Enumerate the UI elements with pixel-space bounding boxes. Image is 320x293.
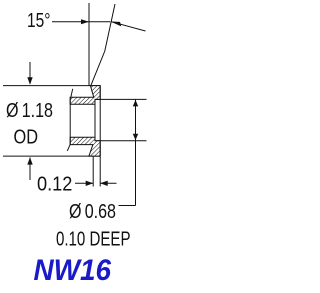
arrow: angle leader arrowhead at slanted line [111,22,122,27]
wire: 0.12 right dimension line [100,182,116,184]
wire: 0.68 dimension/leader vertical [135,99,137,205]
wire: OD bottom dimension line [29,158,31,181]
wire: recess top extension line [95,98,147,100]
wire: 0.12 right extension line [99,157,101,187]
weld tick bottom [67,145,70,151]
arrow: 0.12 pointing left [100,181,108,186]
wire: OD top dimension line [29,62,31,84]
arrow: OD bottom pointing up [27,157,32,164]
flange section top half [70,86,100,105]
wire: top OD extension line [3,85,100,87]
svg-text:Ø 1.18: Ø 1.18 [6,100,53,122]
arrow: 0.12 pointing right [86,181,94,186]
svg-text:15°: 15° [27,10,51,32]
recess floor line [94,99,96,140]
wire: 0.68 leader horizontal [119,205,136,207]
tube end face line [69,97,71,144]
flange section bottom half [70,137,100,156]
arrow: 0.68 pointing up [133,100,138,107]
wire: recess bottom extension line [95,140,147,142]
svg-text:OD: OD [14,127,39,149]
wire: 0.12 left extension line [92,157,94,187]
arrow: angle dim right-pointing at vertical line [81,19,89,24]
svg-text:0.10 DEEP: 0.10 DEEP [56,228,131,250]
arrowheads [27,19,138,186]
wire: vertical angle reference line [88,3,90,86]
wire: 15-degree slanted construction line [91,4,115,85]
flange face line [99,86,101,157]
arrow: 0.68 pointing down [133,134,138,141]
arrow: OD top pointing down [27,77,32,84]
wire: bottom OD extension line [3,155,100,157]
wire: angle leader to slanted line [111,22,146,32]
svg-text:Ø 0.68: Ø 0.68 [69,201,116,223]
wire: 0.12 left dimension line [75,182,93,184]
wire: angle dimension line [52,21,110,23]
weld tick top [71,89,73,98]
svg-text:0.12: 0.12 [37,173,72,195]
svg-text:NW16: NW16 [34,254,112,287]
